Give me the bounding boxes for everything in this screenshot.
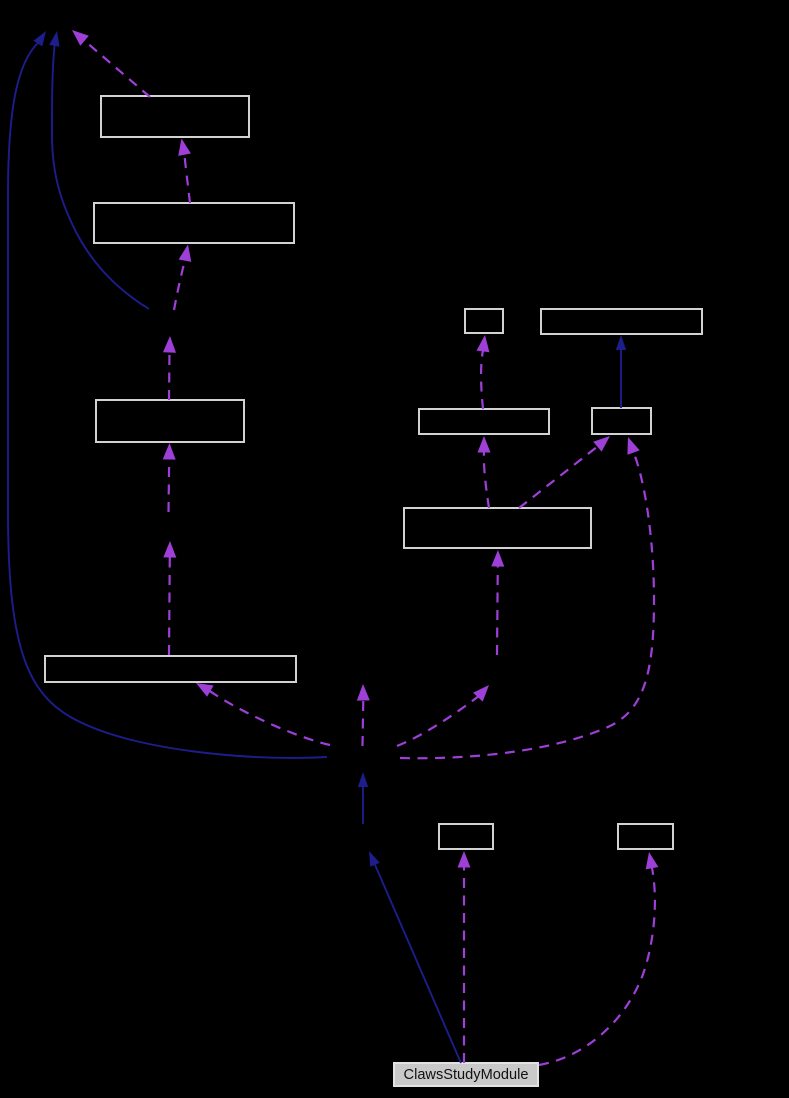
edge C to node M1 (dashed): [163, 336, 176, 400]
edge node M1 to top node (solid): [49, 31, 149, 309]
node G: [592, 408, 651, 434]
edge node M1 to B (dashed): [174, 245, 191, 311]
node ClawsStudyModule: [394, 1063, 538, 1086]
node B: [94, 203, 294, 243]
edge ClawsStudyModule to node M5 (solid): [369, 851, 461, 1063]
edge ClawsStudyModule to K (dashed arc): [539, 852, 658, 1065]
edge node M3b to H (dashed): [491, 550, 504, 655]
edge ClawsStudyModule to J (dashed): [458, 851, 471, 1063]
edge hub node to I (dashed): [196, 683, 330, 745]
node E: [541, 309, 702, 334]
edge G to E (solid): [616, 335, 626, 408]
svg-text:ClawsStudyModule: ClawsStudyModule: [404, 1067, 529, 1083]
node J: [439, 824, 493, 849]
edge A to top node (dashed): [72, 30, 150, 97]
edge hub node to G (dashed arc): [400, 437, 654, 758]
node D: [465, 309, 503, 333]
node K: [618, 824, 673, 849]
edge H to F (dashed): [478, 436, 491, 508]
node I: [45, 656, 296, 682]
edge H to G (dashed): [519, 436, 610, 508]
node H: [404, 508, 591, 548]
edge I to node M2 (dashed): [163, 541, 176, 655]
edge hub node to node M3b (dashed): [397, 685, 489, 746]
node A: [101, 96, 249, 137]
edge hub node to node M3a (dashed): [357, 684, 370, 746]
edge node M2 to C (dashed): [163, 443, 176, 512]
edge hub node to top node (long solid curve): [8, 31, 327, 758]
node F: [419, 409, 549, 434]
node C: [96, 400, 244, 442]
edge node M5 to hub node (solid): [358, 772, 368, 824]
edge B to A (dashed): [178, 139, 191, 204]
edge F to D (dashed): [477, 335, 490, 409]
